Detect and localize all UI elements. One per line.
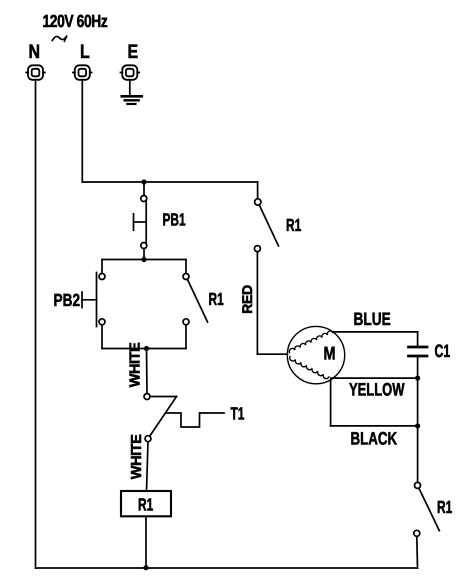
wire coil to bottom [145, 516, 147, 567]
pushbutton PB2 [82, 273, 105, 327]
pushbutton PB1 [134, 196, 147, 249]
svg-text:R1: R1 [209, 289, 224, 309]
wire motor bottom down [330, 380, 332, 426]
node junction below PB2 [144, 346, 149, 351]
wire RED down [256, 252, 258, 355]
terminal E [121, 65, 140, 80]
motor winding lower [290, 357, 329, 379]
svg-text:WHITE: WHITE [128, 342, 144, 387]
capacitor C1 [409, 332, 428, 378]
terminal L [73, 65, 92, 80]
svg-text:WHITE: WHITE [129, 434, 145, 479]
svg-text:BLACK: BLACK [351, 428, 398, 448]
wire BLUE [333, 331, 418, 333]
svg-text:T1: T1 [231, 404, 245, 424]
node junction yellow [415, 376, 420, 381]
relay coil R1 [121, 491, 171, 516]
wire top horizontal [82, 181, 257, 183]
svg-text:120V 60Hz: 120V 60Hz [43, 11, 108, 31]
svg-text:L: L [80, 41, 90, 63]
svg-text:RED: RED [239, 285, 255, 314]
node junction mid [141, 257, 146, 262]
wire to PB1 [143, 182, 145, 196]
svg-text:E: E [128, 41, 139, 63]
wire right branch down [185, 260, 187, 274]
wire PB2 branch bottom [102, 348, 186, 350]
wire into motor [257, 353, 287, 355]
svg-text:PB1: PB1 [163, 210, 186, 230]
svg-text:M: M [324, 343, 336, 364]
AC tilde symbol [52, 36, 67, 42]
relay contact R1 mid [183, 274, 208, 325]
ground [122, 80, 142, 104]
relay contact R1 bottom right [414, 482, 440, 536]
wire PB2 branch top [102, 259, 186, 261]
svg-text:PB2: PB2 [54, 290, 81, 310]
wire BLACK [331, 425, 418, 427]
svg-text:R1: R1 [138, 495, 153, 515]
wire left branch bottom [101, 325, 103, 349]
wire N down left side [35, 80, 37, 568]
wire right branch bottom [185, 325, 187, 349]
wire L down [81, 80, 83, 182]
wire below PB1 [143, 249, 145, 260]
relay contact R1 top right [254, 199, 278, 252]
terminal N [26, 65, 45, 80]
node junction top [141, 179, 146, 184]
wire to T1 [146, 349, 149, 394]
svg-text:N: N [29, 41, 41, 63]
motor winding upper [289, 331, 333, 353]
wire right vertical [417, 378, 419, 482]
wire left branch down [101, 260, 103, 274]
wire bottom horizontal [36, 567, 418, 569]
wire to bottom [416, 536, 419, 568]
svg-text:R1: R1 [286, 215, 301, 235]
wire to R1 top right [257, 182, 259, 199]
motor M [287, 326, 344, 383]
svg-text:YELLOW: YELLOW [349, 380, 404, 400]
wire T1 to coil [147, 442, 149, 491]
node junction black [415, 423, 420, 428]
node junction bottom [143, 565, 148, 570]
thermal switch T1 [144, 394, 224, 442]
svg-text:BLUE: BLUE [354, 309, 391, 329]
svg-text:R1: R1 [437, 497, 452, 517]
wire YELLOW [331, 377, 418, 379]
svg-text:C1: C1 [435, 341, 451, 361]
